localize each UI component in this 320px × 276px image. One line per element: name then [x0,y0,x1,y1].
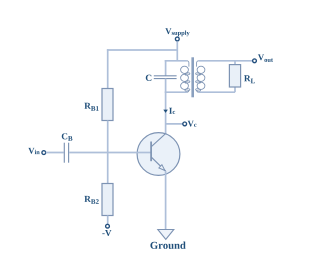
node Vout [253,54,273,62]
wire Vsupply node to transformer primary top rail [176,41,178,61]
resistor RL [229,65,255,87]
wire transformer secondary top rail to Vout [199,60,253,62]
resistor RB1 [84,89,113,121]
node -V [102,224,111,236]
transformer T1 core [191,57,194,97]
ground [150,230,185,249]
wire RB2 to -V node [107,216,109,225]
wire Vc stub [166,123,183,125]
transistor Q1 [137,133,180,176]
wire RL bottom stub [234,87,236,93]
transformer T1 primary coil [181,61,190,92]
wire CB to transistor base [69,152,150,154]
capacitor C [146,75,177,81]
wire left vertical from top rail down to RB1 [107,49,109,89]
wire emitter to ground [165,171,167,229]
wire transformer primary loop left branch upper [165,60,167,75]
wire RB1 to base junction to RB2 [107,121,109,185]
wire RL top stub [234,61,236,65]
node Vin [28,148,45,155]
wire transformer primary bottom rail [165,91,187,93]
transformer T1 secondary coil [195,61,204,92]
resistor RB2 [84,184,113,216]
wire transformer primary loop left branch lower [165,79,167,93]
current arrow Ic [163,108,175,114]
capacitor CB [62,133,73,162]
wire Vin node to CB [46,152,64,154]
wire collector vertical from transformer bottom rail to transistor [165,92,167,134]
wire top horizontal rail to RB1 branch [107,49,177,51]
node Vsupply [165,28,189,41]
wire transformer primary top rail [165,60,187,62]
node Vc [183,121,197,127]
wire transformer secondary bottom rail [199,91,235,93]
